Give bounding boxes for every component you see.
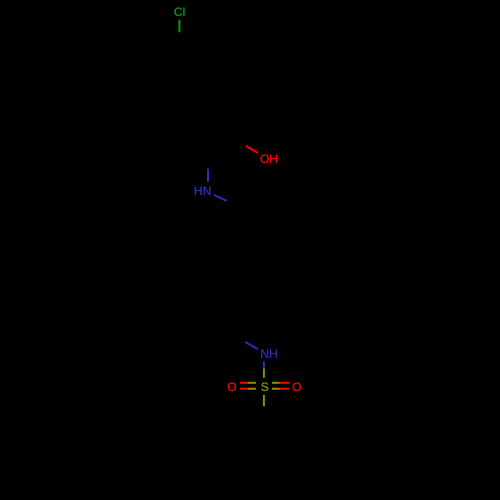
double bond S=O left, top line sulfur half (248, 382, 256, 384)
double bond S=O left, bottom line sulfur half (248, 388, 256, 390)
svg-text:S: S (261, 380, 269, 394)
bond N-S (sulfur half) (263, 368, 265, 377)
bond N-S (nitrogen half) (263, 361, 265, 368)
bond C-N diagonal (nitrogen half) (245, 342, 258, 349)
bond S-C below (sulfur half) (263, 395, 265, 406)
svg-text:HN: HN (194, 184, 211, 198)
double bond S=O right, top line oxygen half (280, 382, 289, 384)
svg-text:O: O (227, 380, 236, 394)
bond Cl-C (chlorine half) (178, 20, 180, 33)
bond N-C diagonal (nitrogen half) (214, 195, 227, 201)
double bond S=O right, top line sulfur half (272, 382, 280, 384)
double bond S=O left, bottom line oxygen half (240, 388, 248, 390)
double bond S=O right, bottom line oxygen half (280, 388, 289, 390)
svg-text:Cl: Cl (174, 5, 185, 19)
bond C-O (oxygen half) (246, 146, 258, 153)
svg-text:O: O (292, 380, 301, 394)
bond C-N vertical (nitrogen half) (207, 169, 209, 182)
svg-text:OH: OH (260, 152, 278, 166)
svg-text:NH: NH (260, 347, 277, 361)
double bond S=O left, top line oxygen half (240, 382, 248, 384)
double bond S=O right, bottom line sulfur half (272, 388, 280, 390)
